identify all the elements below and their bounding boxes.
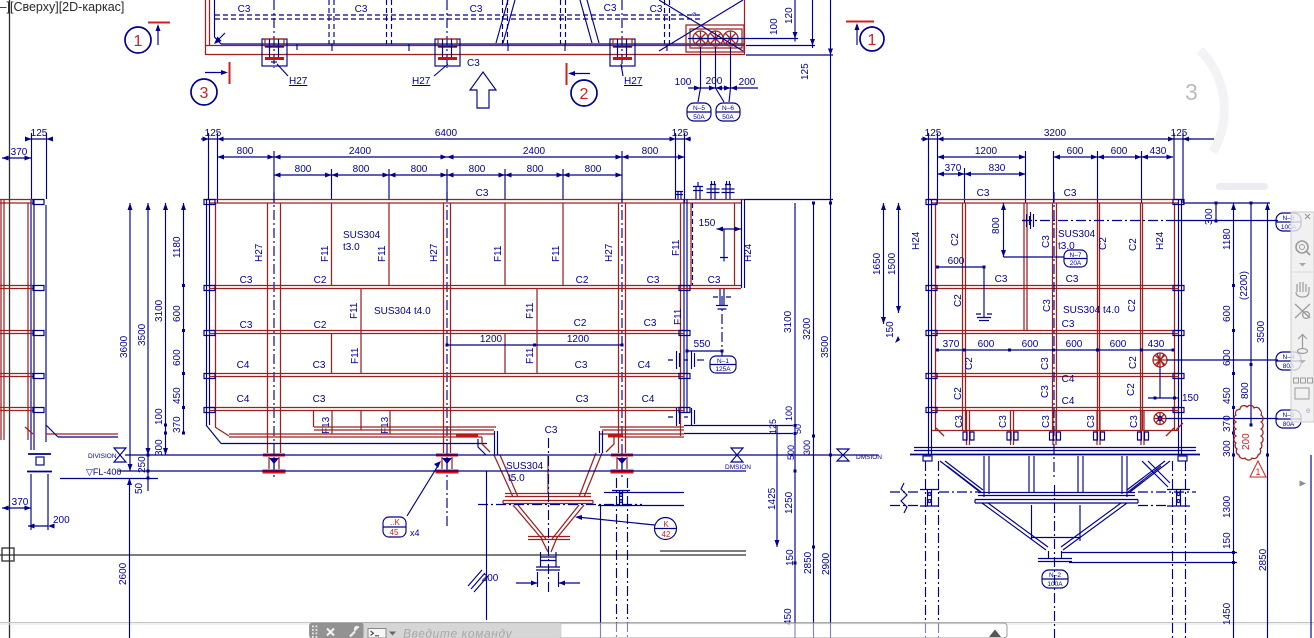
nozzle tag N-3 80A [1276,410,1301,428]
side buried column I profiles [920,490,1190,507]
side nozzle circle upper (red hatched) [1153,353,1167,367]
side right H24 column [1179,199,1182,455]
H27 label 2 [434,64,448,76]
svg-text:370: 370 [945,163,962,174]
svg-text:600: 600 [978,339,995,350]
svg-text:600: 600 [948,256,965,267]
svg-text:600: 600 [1111,146,1128,157]
svg-text:C3: C3 [1129,415,1140,428]
svg-text:F11: F11 [350,347,361,364]
svg-text:600: 600 [1222,305,1233,322]
svg-text:C4: C4 [237,360,250,371]
FL-400 level line [118,470,746,472]
bottom plate blue projection lines [684,426,793,434]
nozzle circle 2 [708,31,723,46]
weld tag K45 x4 [383,461,441,538]
upper cone slopes [947,466,1161,492]
svg-text:ø: ø [692,11,696,18]
H27 label 3 [621,64,623,76]
svg-text:370: 370 [172,416,183,433]
svg-text:300: 300 [1222,440,1233,457]
F11 stiffeners row A [332,203,564,285]
svg-text:▽FL-400: ▽FL-400 [86,467,121,477]
svg-text:H27: H27 [289,76,308,87]
svg-text:C3: C3 [313,360,326,371]
svg-text:F11: F11 [525,302,536,319]
svg-text:50A: 50A [693,114,705,121]
svg-text:125: 125 [31,128,48,139]
hopper center stiffener [547,456,549,493]
side lower nozzle flange [976,306,992,321]
(2200) and 800 chain [1250,203,1252,425]
bottom plate red lines [314,427,496,430]
svg-text:C3: C3 [1042,299,1053,312]
side top chord red double [929,200,1182,204]
svg-text:2400: 2400 [349,146,372,157]
H27 column 1 (red pair + centerline) [268,203,281,453]
svg-text:C3: C3 [476,188,489,199]
beam row y407 [209,408,684,411]
hidden stiffener lines (dashed verticals) [329,0,670,44]
svg-text:120: 120 [784,7,795,24]
svg-text:C2: C2 [953,387,964,400]
section balloon 1 (left) [125,27,151,53]
outlet neck (blue) [536,552,560,570]
svg-text:C3: C3 [545,425,558,436]
DIVISION symbol mid [731,448,743,462]
svg-text:100: 100 [154,408,165,425]
svg-text:800: 800 [991,217,1002,234]
leader line from nozzles [688,38,798,40]
svg-text:1: 1 [868,32,877,49]
dim row 800/2400/2400/800 [218,156,685,158]
svg-text:300: 300 [154,439,165,456]
svg-text:C3: C3 [604,3,617,14]
svg-text:2900: 2900 [821,552,832,575]
column H27 connection symbol 2 [435,39,460,66]
svg-text:N–7: N–7 [1070,252,1082,259]
svg-text:1200: 1200 [975,146,998,157]
side centerline dash-dot [1053,192,1055,480]
svg-text:100: 100 [675,77,692,88]
svg-text:DMSION: DMSION [856,454,882,461]
zoom icon [1296,241,1308,253]
cone tip [542,540,556,552]
side bottom chord [932,430,1179,432]
svg-text:800: 800 [353,164,370,175]
svg-text:x4: x4 [410,528,420,538]
command prompt box [368,629,386,638]
svg-text:C2: C2 [1098,237,1109,250]
svg-text:600: 600 [1066,339,1083,350]
buried column I-profile [612,491,630,506]
dim row 800 x6 [274,174,622,176]
svg-text:150: 150 [885,321,896,338]
svg-text:200: 200 [53,515,70,526]
side left H24 column [929,199,932,455]
bottom plate left transition [206,425,487,444]
small cross mark [720,254,728,262]
svg-text:H27: H27 [429,243,440,262]
svg-text:500: 500 [786,445,796,460]
svg-text:C2: C2 [574,318,587,329]
svg-text:3100: 3100 [154,299,165,322]
base dims 370/200 [2,507,31,509]
dim 2600 line [129,478,131,638]
hidden C3 purlin lines (dashed) [215,14,700,16]
left fragment chords [0,200,33,411]
DIVISION symbol right [837,449,849,461]
svg-text:600: 600 [1222,349,1233,366]
left fragment dim 125 [25,138,52,140]
svg-text:C3: C3 [977,188,990,199]
svg-text:F11: F11 [551,245,562,262]
watermark arc [1200,50,1224,152]
svg-text:C2: C2 [314,275,327,286]
svg-text:1300: 1300 [1222,495,1233,518]
left vertical dim 3100 + 100 + 300 [165,203,167,455]
svg-text:1200: 1200 [480,334,503,345]
svg-text:3600: 3600 [119,335,130,358]
svg-text:F11: F11 [671,239,682,256]
plan X bracing [659,0,743,51]
svg-text:C3: C3 [238,4,251,15]
svg-text:C4: C4 [1062,396,1075,407]
column centerlines (dash-dot) [274,0,622,68]
svg-text:SUS304: SUS304 [343,230,381,241]
dash-dot footing lines [890,492,1196,506]
svg-text:C4: C4 [1062,374,1075,385]
front view top dim row 125/6400/125 [201,138,691,140]
revision triangle 1 [1250,461,1266,477]
svg-text:150: 150 [1222,532,1233,549]
brace top right [1142,461,1170,487]
svg-text:830: 830 [989,163,1006,174]
outlet neck side [1038,551,1072,562]
left fragment column base [28,453,51,455]
svg-text:3200: 3200 [1044,128,1067,139]
nozzle tag N-4 80A [1276,352,1301,370]
right chain 1180/600/600/450/370/300 [1233,203,1235,638]
svg-text:125: 125 [800,63,811,80]
svg-text:H24: H24 [911,231,922,250]
svg-text:N–1: N–1 [717,358,729,365]
beam row y373 [209,374,684,377]
svg-text:C3: C3 [1041,415,1052,428]
svg-text:430: 430 [1150,146,1167,157]
svg-text:6400: 6400 [435,128,458,139]
lower cone slopes [982,503,1127,550]
break line squiggle [901,483,907,513]
right side dim 300 [1215,203,1217,221]
nozzle circle 1 [693,31,708,46]
svg-text:F11: F11 [525,347,536,364]
beam clips [33,200,44,413]
svg-text:1200: 1200 [567,334,590,345]
svg-text:C2: C2 [964,357,975,370]
svg-text:125A: 125A [715,366,731,373]
side nozzle circle lower [1154,413,1166,425]
grip dots [312,626,317,638]
svg-text:2850: 2850 [803,551,814,574]
svg-text:800: 800 [295,164,312,175]
svg-text:t5.0: t5.0 [508,473,525,484]
support ring frame [914,448,1196,451]
close X [327,629,334,636]
far right dim line [1310,455,1312,638]
svg-text:125: 125 [205,128,222,139]
nozzle tag N-6 [716,103,740,121]
svg-text:800: 800 [527,164,544,175]
svg-text:370: 370 [12,497,29,508]
svg-text:600: 600 [1067,146,1084,157]
svg-text:550: 550 [694,339,711,350]
svg-text:1180: 1180 [172,236,183,258]
svg-text:125: 125 [1171,128,1188,139]
svg-text:C3: C3 [1064,188,1077,199]
column base H27-2 [436,455,459,472]
nozzle leaders to tags [1166,360,1278,419]
H27 column 3 [619,203,626,453]
svg-text:F13: F13 [380,416,391,434]
balloon 3 tick [229,62,231,84]
svg-text:150: 150 [699,218,716,229]
svg-text:C4: C4 [642,394,655,405]
svg-text:F11: F11 [349,302,360,319]
svg-text:1180: 1180 [1222,228,1233,250]
svg-text:3: 3 [1185,79,1198,105]
svg-text:DIVISION: DIVISION [88,453,117,460]
corner clips at beam levels [204,200,215,205]
svg-text:C2: C2 [1126,383,1137,396]
svg-text:F11: F11 [320,245,331,262]
corner leader arrow [218,33,225,40]
lower cone struts [1032,505,1081,541]
nozzle tag N-8 100A right edge [1276,213,1301,231]
svg-text:K: K [663,520,669,529]
svg-text:Введите команду: Введите команду [403,627,513,638]
top view: red right edge [744,0,746,55]
stiffener ticks on bottom chord [297,44,667,51]
section balloon 2 [571,80,597,106]
svg-text:370: 370 [1222,415,1233,432]
svg-text:370: 370 [11,147,28,158]
F11 stiffeners row B/C [332,288,538,373]
svg-text:200: 200 [1241,433,1252,450]
hopper lower cone [513,505,584,539]
svg-text:C3: C3 [575,360,588,371]
extension line at top right [1183,139,1270,203]
svg-text:370: 370 [943,339,960,350]
svg-text:300: 300 [1204,208,1215,225]
svg-text:50: 50 [793,424,803,434]
svg-text:C2: C2 [953,294,964,307]
side nozzle centerline top [1022,220,1170,222]
svg-text:1450: 1450 [1222,602,1233,625]
svg-text:1650: 1650 [872,252,883,275]
hidden line in box [692,203,694,285]
nozzle circle 3 [723,31,738,46]
svg-text:t3.0: t3.0 [343,242,360,253]
nozzle tag N-7 20A [1064,250,1087,267]
svg-text:2600: 2600 [118,562,129,585]
svg-text:430: 430 [1148,339,1165,350]
svg-text:600: 600 [172,349,183,366]
left vertical dim 3500 [147,203,149,455]
side dim row 1200 / 600 600 430 [938,156,1174,158]
svg-text:H27: H27 [412,76,431,87]
svg-text:—][Сверху][2D-каркас]: —][Сверху][2D-каркас] [0,0,124,14]
svg-text:100A: 100A [1047,581,1063,588]
left vertical dim 3600 [129,203,131,471]
svg-text:1: 1 [1255,467,1260,477]
close x [1305,214,1310,219]
svg-text:F11: F11 [377,245,388,262]
column base H27-1 [263,455,286,472]
nozzle tag N-2 100A [1042,570,1068,588]
svg-text:F11: F11 [493,245,504,262]
hidden column lines below FL [617,478,628,638]
column H27 connection symbol 3 [610,39,635,66]
balloon 2 tick [566,63,568,85]
svg-text:C4: C4 [638,360,651,371]
dim leader lines to right [1062,553,1237,563]
customize wrench [350,632,355,637]
svg-text:1250: 1250 [784,491,795,514]
dim 250 + 50 [147,454,150,457]
svg-text:50: 50 [134,482,145,494]
big section arrow (hollow) [470,72,496,108]
svg-text:H24: H24 [1155,231,1166,250]
hopper upper cone (red) [494,453,602,497]
svg-text:C3: C3 [1066,274,1079,285]
svg-text:150: 150 [1182,393,1199,404]
svg-text:200: 200 [739,77,756,88]
svg-text:50A: 50A [722,114,734,121]
side wall nozzle flanges at y417 [668,408,695,426]
UCS origin box [2,548,14,561]
nozzle tag N-1 125A [710,356,736,373]
svg-text:N–5: N–5 [693,105,705,112]
balloon 1R tick [846,21,874,23]
dim 150 nozzle offset [1148,397,1178,399]
column base H27-3 [611,455,634,472]
left chain 1180/600/600/450/370 [183,203,185,434]
svg-text:3500: 3500 [137,323,148,346]
right extension box columns [691,203,735,285]
column H27 connection symbol 1 [262,39,287,66]
side hopper centerline [1054,485,1056,638]
svg-text:100: 100 [769,18,780,35]
roof nozzle bolts [676,181,735,199]
side dim row 125/3200/125 [921,138,1191,140]
dim 1200/1200 row C [447,344,622,346]
svg-text:3200: 3200 [802,317,813,340]
H27 label 1 [277,64,288,76]
hopper flange ring [503,494,593,504]
svg-text:C3: C3 [708,275,721,286]
showmotion icon [1294,378,1313,399]
svg-text:(2200): (2200) [1239,271,1250,300]
svg-text:N–2: N–2 [1049,572,1061,579]
svg-text:C3: C3 [1040,385,1051,398]
pit left wall [486,471,488,620]
hopper centerline [548,438,550,592]
svg-text:SUS304: SUS304 [1058,229,1096,240]
dash-dot flange level line [478,504,642,506]
svg-text:45: 45 [390,528,399,537]
svg-text:H27: H27 [624,76,643,87]
svg-text:2: 2 [580,86,589,103]
lower ring [528,537,570,540]
svg-text:H27: H27 [604,243,615,262]
50 offset line [60,478,158,480]
nozzle tag N-5 [687,103,711,121]
side corner clips [926,200,1184,205]
wheel icon [1298,335,1308,354]
svg-text:F11: F11 [673,308,684,325]
svg-text:C3: C3 [644,318,657,329]
left fragment dim 370 [2,157,31,159]
svg-text:800: 800 [237,146,254,157]
side buried columns dash-dot [926,461,1186,638]
orbit icon [1295,304,1310,318]
svg-text:C3: C3 [650,4,663,15]
svg-text:C2: C2 [314,320,327,331]
H27 column 2 [444,203,451,453]
thick weld bars on plate [456,435,478,438]
svg-text:C3: C3 [647,275,660,286]
svg-text:1: 1 [134,33,143,50]
top view: red bottom chords [205,45,745,47]
pit lines right of hopper [598,493,684,638]
red diagonal at plate [25,427,118,434]
svg-text:800: 800 [585,164,602,175]
nozzle spacing dim 100 200 200 [688,47,758,88]
svg-text:C3: C3 [470,4,483,15]
svg-text:C3: C3 [995,274,1008,285]
DIVISION level line [125,454,878,456]
svg-text:600: 600 [172,305,183,322]
3500 / 2850 right chain [1267,203,1269,638]
svg-text:H27: H27 [254,243,265,262]
side interior columns C2 [963,203,966,430]
DIVISION symbol left [114,448,126,462]
svg-text:450: 450 [783,608,794,625]
grey separator line above command row [0,622,1314,624]
right column of tank (blue pair) [684,199,687,412]
hopper outline in plan (V lines) [496,0,599,43]
side dim row 600/600/600/430 at row C [938,349,1174,351]
left dims 1650/1500 [884,203,899,324]
faint highlight band [1216,183,1268,190]
svg-text:..K: ..K [390,518,400,527]
svg-text:800: 800 [469,164,486,175]
side wall nozzle flanges at y360 [668,351,704,369]
svg-text:20A: 20A [1070,260,1082,267]
weld tag K42 [575,515,677,540]
top-right vertical dim lines [795,0,831,57]
svg-text:100: 100 [784,406,794,421]
dim 200 outlet [516,572,580,587]
svg-text:C4: C4 [237,394,250,405]
svg-text:2850: 2850 [1258,548,1269,571]
side dim row 370/830 [938,173,1026,175]
section balloon 3 [191,79,217,105]
beam row y285 (red double) [209,286,741,289]
svg-text:C3: C3 [355,4,368,15]
svg-text:3500: 3500 [820,335,831,358]
